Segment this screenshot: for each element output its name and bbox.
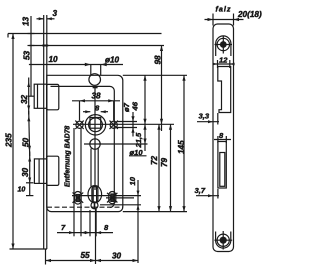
- dimension 13/53 line: [30, 16, 32, 96]
- dimension 98: [161, 46, 163, 132]
- hidden dashed line: [47, 206, 123, 208]
- svg-text:21,5: 21,5: [134, 132, 143, 149]
- dimension 12: [215, 63, 232, 65]
- svg-text:145: 145: [177, 140, 186, 154]
- wire: top extension line from plate top: [8, 33, 162, 35]
- tick at extension line end: [7, 34, 9, 38]
- case top extension line: [123, 74, 187, 76]
- dimension 38: [79, 101, 81, 121]
- dimension o7: [117, 121, 137, 123]
- svg-text:falz: falz: [216, 5, 232, 14]
- latch guide box: [47, 84, 59, 109]
- svg-text:8: 8: [104, 223, 109, 232]
- keyway slot: [90, 149, 92, 187]
- svg-text:3,7: 3,7: [195, 186, 206, 195]
- dimension 145: [183, 75, 185, 211]
- svg-text:20(18): 20(18): [237, 10, 262, 19]
- latch cutout: [218, 67, 231, 113]
- inner contour top: [216, 36, 231, 56]
- screw hole right: [110, 121, 117, 128]
- svg-text:3,3: 3,3: [199, 112, 210, 121]
- svg-text:8: 8: [219, 131, 224, 140]
- dimension 50 line: [29, 111, 30, 156]
- svg-text:32: 32: [20, 94, 29, 104]
- dimension 20 line: [205, 19, 244, 21]
- svg-text:10: 10: [128, 176, 137, 185]
- svg-text:30: 30: [21, 167, 30, 177]
- svg-text:12: 12: [219, 56, 228, 65]
- dimension 72: [158, 124, 160, 211]
- latch bolt: [34, 84, 47, 108]
- svg-text:10: 10: [49, 55, 59, 64]
- dimension 79: [170, 124, 172, 211]
- dimension 46 / 21,5 shared line: [144, 75, 146, 151]
- dimension 10 mid-right: [137, 180, 139, 263]
- svg-text:235: 235: [5, 133, 14, 148]
- dimension 3 plate thickness: [43, 15, 45, 34]
- dimension 55 / 30 bottom: [45, 249, 47, 265]
- dimension 235 line: [12, 34, 14, 250]
- bottom screw hole: [217, 234, 229, 246]
- dimension 32 line: [28, 78, 30, 115]
- svg-text:55: 55: [81, 251, 91, 260]
- svg-text:10: 10: [18, 187, 26, 194]
- keyhole row center line: [72, 195, 141, 197]
- screw hole left: [76, 121, 83, 128]
- case bottom extension line: [123, 211, 187, 213]
- svg-text:3: 3: [53, 9, 58, 18]
- top screw mark on faceplate edge: [42, 45, 48, 47]
- faceplate edge view: [43, 34, 45, 250]
- svg-text:13: 13: [22, 16, 31, 26]
- dimension 7 and 8 bottom: [73, 128, 75, 236]
- o10 bump on case top: [89, 74, 101, 86]
- plate bottom line: [10, 248, 48, 250]
- dimension line o10 top: [29, 64, 123, 66]
- faceplate front outline: [213, 24, 234, 252]
- dimension 8 square: [83, 111, 90, 113]
- cylinder circle: [90, 139, 100, 149]
- svg-text:53: 53: [23, 50, 32, 60]
- follower nut: [85, 115, 105, 135]
- top screw hole: [217, 38, 229, 50]
- lock cover inner plate: [51, 86, 115, 207]
- deadbolt cutout: [218, 142, 226, 189]
- svg-text:7: 7: [61, 223, 66, 232]
- svg-text:98: 98: [153, 55, 162, 65]
- lock case outline: [47, 75, 123, 211]
- follower center lines: [73, 123, 174, 125]
- deadbolt: [34, 159, 46, 184]
- wire: top screw center extension line: [29, 45, 164, 47]
- svg-text:Entfernung BAD78: Entfernung BAD78: [65, 126, 72, 187]
- svg-text:50: 50: [22, 137, 31, 147]
- lower screw left: [75, 192, 82, 205]
- svg-text:30: 30: [112, 252, 122, 261]
- inner contour bottom: [216, 232, 231, 249]
- keyhole oval: [88, 186, 102, 203]
- lower screw right: [109, 192, 116, 204]
- dimension 30 line: [29, 152, 31, 196]
- svg-text:ø10: ø10: [105, 56, 120, 65]
- svg-text:46: 46: [131, 101, 140, 111]
- bolt guide box: [47, 156, 59, 185]
- svg-text:72: 72: [150, 155, 159, 165]
- svg-text:79: 79: [160, 157, 169, 167]
- svg-text:8: 8: [95, 104, 100, 113]
- svg-text:38: 38: [92, 92, 102, 101]
